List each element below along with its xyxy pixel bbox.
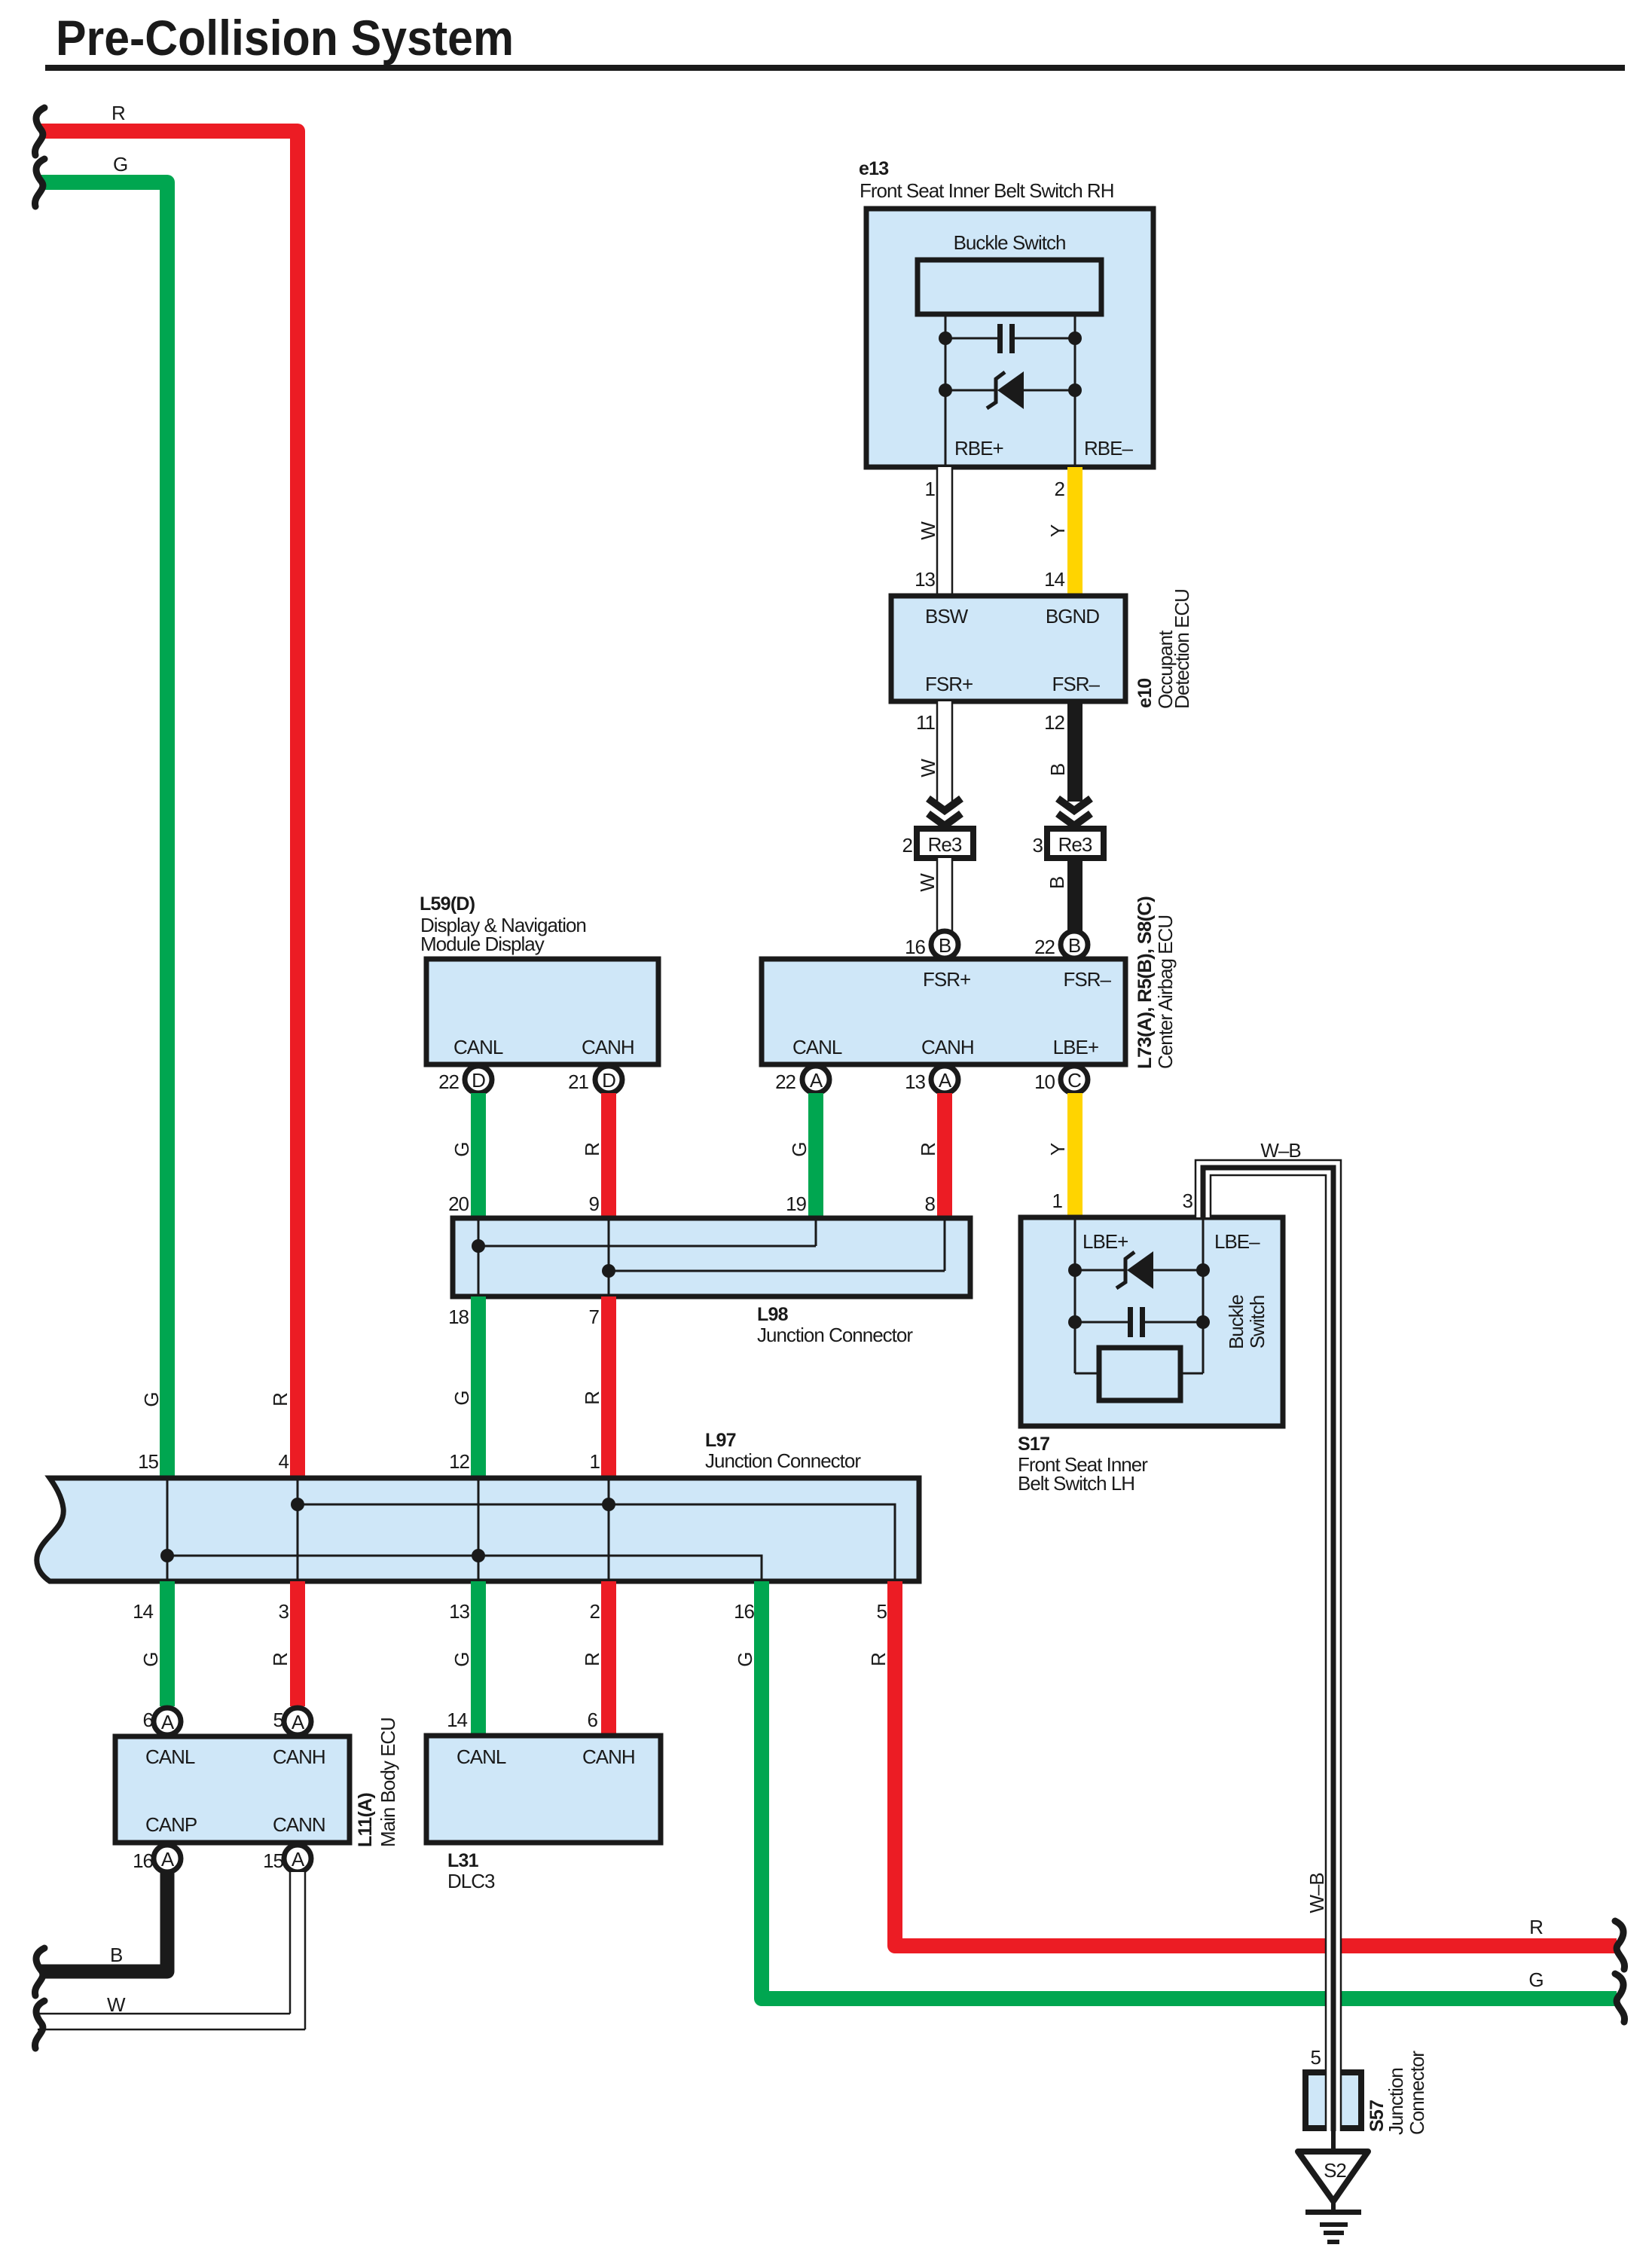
svg-text:Center Airbag ECU: Center Airbag ECU <box>1154 915 1177 1069</box>
svg-text:LBE–: LBE– <box>1214 1230 1260 1253</box>
svg-text:Buckle Switch: Buckle Switch <box>954 231 1066 254</box>
svg-text:9: 9 <box>589 1193 600 1215</box>
S17 buckle switch inner box <box>1099 1348 1180 1400</box>
svg-text:11: 11 <box>916 711 936 734</box>
connector e13 label <box>859 158 1113 202</box>
switch S17 Front Seat Inner Belt Switch LH (box) <box>1021 1217 1283 1426</box>
airbag ECU rotated designation labels <box>1134 896 1177 1069</box>
svg-text:2: 2 <box>1055 478 1065 500</box>
svg-text:G: G <box>788 1142 811 1156</box>
continuation symbol (right, R wire) <box>1615 1921 1625 1969</box>
svg-text:22: 22 <box>1034 936 1055 958</box>
connector e13 Front Seat Inner Belt Switch RH (box) <box>866 209 1153 467</box>
svg-text:L11(A): L11(A) <box>355 1793 376 1847</box>
svg-text:A: A <box>292 1848 305 1871</box>
svg-text:1: 1 <box>590 1450 600 1473</box>
svg-text:FSR+: FSR+ <box>923 968 970 991</box>
svg-text:BSW: BSW <box>925 605 969 628</box>
wire W-B (S17 pin 3 over to S57, white-black) <box>1195 1160 1341 2127</box>
shield arrows (W column) <box>928 799 961 830</box>
svg-text:B: B <box>110 1944 122 1966</box>
svg-text:B: B <box>1046 877 1068 889</box>
S17 label <box>1018 1434 1148 1495</box>
ECU L73(A) R5(B) S8(C) Center Airbag ECU (box) <box>762 959 1125 1064</box>
ECU e10 Occupant Detection ECU (box) <box>891 596 1125 701</box>
svg-text:S17: S17 <box>1018 1434 1049 1455</box>
pin 5(A) connector circle (L11) <box>273 1708 311 1735</box>
pin 15(A) connector circle (L11 bottom) <box>263 1845 311 1872</box>
wire R (L98 pin 7 to L97 pin 1, red col 808) <box>601 1296 616 1478</box>
svg-text:Y: Y <box>1046 1143 1069 1156</box>
e13 capacitor <box>939 324 1082 353</box>
svg-text:3: 3 <box>1033 834 1043 857</box>
svg-text:A: A <box>161 1711 175 1733</box>
svg-text:CANH: CANH <box>921 1036 974 1058</box>
svg-text:G: G <box>139 1652 162 1666</box>
wire R (airbag 13A to L98 pin 8, red) <box>937 1093 952 1220</box>
wire W (e13 pin1 to e10 pin13, white) <box>937 467 952 596</box>
wire (S57 to ground triangle) <box>1331 2128 1336 2152</box>
svg-text:15: 15 <box>138 1450 158 1473</box>
S17 capacitor <box>1068 1307 1210 1337</box>
svg-text:BGND: BGND <box>1046 605 1099 628</box>
svg-text:Junction Connector: Junction Connector <box>757 1324 913 1346</box>
pin 13(A) connector circle <box>905 1066 958 1093</box>
wire B (Re3 to airbag ECU pin 22B, black) <box>1067 858 1083 932</box>
wire R (L97 pin 3 to L11 pin 5A, red) <box>290 1581 305 1706</box>
svg-text:13: 13 <box>915 568 935 591</box>
svg-text:14: 14 <box>1044 568 1064 591</box>
svg-text:Buckle: Buckle <box>1225 1294 1247 1349</box>
shield arrows (B column) <box>1058 799 1091 830</box>
shield relay block Re3 (pin 3) <box>1033 829 1104 858</box>
e10 rotated designation labels <box>1134 589 1193 709</box>
svg-text:D: D <box>602 1069 615 1092</box>
svg-text:Front Seat Inner Belt Switch R: Front Seat Inner Belt Switch RH <box>860 179 1113 202</box>
svg-text:7: 7 <box>589 1306 600 1328</box>
svg-text:C: C <box>1067 1069 1081 1092</box>
ground symbol <box>1305 2201 1361 2244</box>
continuation symbol (left, G wire) <box>35 159 44 206</box>
svg-text:CANN: CANN <box>273 1813 325 1836</box>
svg-text:B: B <box>939 934 951 957</box>
svg-text:Detection ECU: Detection ECU <box>1171 589 1193 709</box>
junction connector L97 (box with torn left edge) <box>37 1478 919 1581</box>
svg-text:Switch: Switch <box>1246 1296 1269 1349</box>
e13 buckle switch inner box <box>918 231 1101 314</box>
svg-text:L73(A), R5(B), S8(C): L73(A), R5(B), S8(C) <box>1134 896 1156 1069</box>
svg-text:DLC3: DLC3 <box>447 1870 495 1892</box>
pin 10(C) connector circle <box>1034 1066 1088 1093</box>
pin 22(D) connector circle <box>438 1066 492 1093</box>
svg-text:CANH: CANH <box>582 1036 634 1058</box>
connector L59(D) label <box>420 893 586 955</box>
svg-text:10: 10 <box>1034 1070 1055 1093</box>
ground point S2 (triangle) <box>1298 2152 1368 2201</box>
svg-text:15: 15 <box>263 1849 283 1872</box>
S17 internal wires <box>1075 1217 1203 1373</box>
svg-text:22: 22 <box>775 1070 795 1093</box>
connector L31 DLC3 (box) <box>426 1736 661 1843</box>
svg-text:5: 5 <box>1311 2046 1321 2069</box>
svg-text:A: A <box>292 1711 305 1733</box>
wire R (L97 pin 5 to right edge, red) <box>895 1581 1617 1946</box>
svg-text:CANL: CANL <box>145 1745 195 1768</box>
svg-text:12: 12 <box>449 1450 469 1473</box>
svg-text:LBE+: LBE+ <box>1083 1230 1128 1253</box>
wire G (L59 22D to L98 pin 20, green) <box>471 1093 486 1220</box>
svg-text:A: A <box>939 1069 952 1092</box>
svg-text:R: R <box>111 102 125 124</box>
svg-text:2: 2 <box>590 1600 600 1623</box>
svg-text:16: 16 <box>734 1600 754 1623</box>
svg-text:13: 13 <box>905 1070 925 1093</box>
junction connector L98 (box) <box>453 1218 970 1296</box>
wire W (Re3 to airbag ECU pin 16B, white) <box>937 858 952 932</box>
module L59 Display &amp; Navigation Module Display (box) <box>426 959 658 1064</box>
shield relay block Re3 (pin 2) <box>902 829 973 858</box>
wire R (L97 pin 2 to L31 pin 6, red) <box>601 1581 616 1736</box>
svg-text:G: G <box>113 153 127 176</box>
svg-text:W–B: W–B <box>1305 1873 1328 1913</box>
L31 terminal labels <box>457 1745 635 1768</box>
svg-text:G: G <box>450 1142 473 1156</box>
S17 terminal labels <box>1083 1230 1260 1253</box>
svg-text:e10: e10 <box>1134 679 1156 708</box>
svg-text:14: 14 <box>447 1709 467 1731</box>
svg-text:L97: L97 <box>705 1430 736 1451</box>
svg-text:1: 1 <box>1052 1190 1063 1212</box>
svg-text:R: R <box>867 1653 890 1666</box>
wire W (L11 pin 15A to left edge, white) <box>38 1872 305 2029</box>
svg-text:W: W <box>917 521 939 540</box>
svg-text:2: 2 <box>902 834 913 857</box>
svg-text:CANP: CANP <box>145 1813 197 1836</box>
svg-text:L59(D): L59(D) <box>420 893 475 915</box>
continuation symbol (left, R wire) <box>35 108 44 155</box>
wire G (L97 pin 16 to right edge, green) <box>762 1581 1617 1999</box>
svg-text:FSR–: FSR– <box>1064 968 1112 991</box>
L97 internal wires <box>160 1478 895 1581</box>
svg-text:G: G <box>140 1392 163 1406</box>
svg-text:G: G <box>450 1652 473 1666</box>
svg-text:6: 6 <box>588 1709 598 1731</box>
svg-text:W: W <box>107 1993 126 2016</box>
svg-text:3: 3 <box>1183 1190 1193 1212</box>
continuation symbol (left, W wire) <box>35 2001 44 2048</box>
svg-text:CANL: CANL <box>792 1036 842 1058</box>
ECU L11(A) Main Body ECU (box) <box>115 1736 350 1843</box>
svg-text:S2: S2 <box>1324 2159 1346 2182</box>
svg-text:Connector: Connector <box>1406 2051 1428 2135</box>
S17 rotated Buckle Switch label <box>1225 1294 1269 1349</box>
svg-text:CANH: CANH <box>582 1745 635 1768</box>
wire G (L97 pin 13 to L31 pin 14, green) <box>471 1581 486 1736</box>
svg-text:B: B <box>1046 764 1069 776</box>
svg-text:18: 18 <box>448 1306 469 1328</box>
svg-text:Y: Y <box>1046 524 1069 537</box>
svg-text:12: 12 <box>1044 711 1064 734</box>
svg-text:13: 13 <box>449 1600 469 1623</box>
svg-text:CANL: CANL <box>457 1745 506 1768</box>
wire W (e10 pin11 down to shield arrow, white) <box>937 701 952 802</box>
svg-text:CANH: CANH <box>273 1745 325 1768</box>
svg-text:D: D <box>472 1069 485 1092</box>
svg-text:Module Display: Module Display <box>420 933 545 955</box>
svg-text:14: 14 <box>133 1600 153 1623</box>
svg-text:FSR–: FSR– <box>1052 673 1101 695</box>
svg-text:5: 5 <box>877 1600 887 1623</box>
pin 16(A) connector circle (L11 bottom) <box>133 1845 181 1872</box>
svg-text:21: 21 <box>568 1070 588 1093</box>
L98 internal wires <box>472 1218 945 1296</box>
svg-text:LBE+: LBE+ <box>1053 1036 1098 1058</box>
wire B (e10 pin12 down to shield arrow, black) <box>1067 701 1083 802</box>
wire G (L97 pin 14 to L11 pin 6A, green) <box>160 1581 175 1706</box>
svg-text:16: 16 <box>905 936 925 958</box>
svg-text:G: G <box>734 1652 756 1666</box>
e13 internal wires <box>945 314 1075 467</box>
svg-text:20: 20 <box>448 1193 469 1215</box>
svg-text:R: R <box>917 1143 939 1156</box>
L11 rotated designation labels <box>355 1718 399 1847</box>
svg-text:19: 19 <box>786 1193 806 1215</box>
L97 label <box>705 1430 861 1472</box>
svg-text:R: R <box>269 1653 292 1666</box>
svg-text:G: G <box>1528 1968 1543 1991</box>
pin 6(A) connector circle (L11) <box>143 1708 181 1735</box>
e10 terminal labels <box>925 605 1101 695</box>
svg-text:Junction: Junction <box>1385 2068 1407 2135</box>
wire G (L98 pin 18 to L97 pin 12... green col 635) <box>471 1296 486 1478</box>
svg-text:G: G <box>450 1391 473 1405</box>
e13 terminal labels <box>954 437 1133 460</box>
wire R (red CAN main bus, from left edge down to L97 pin 4) <box>41 131 298 1478</box>
airbag ECU terminal labels <box>792 968 1112 1058</box>
continuation symbol (left, B wire) <box>35 1948 44 1996</box>
svg-text:R: R <box>581 1653 603 1666</box>
pin 22(B) connector circle <box>1034 931 1088 958</box>
svg-text:e13: e13 <box>859 158 888 179</box>
L59 terminal labels <box>453 1036 634 1058</box>
continuation symbol (right, G wire) <box>1615 1974 1625 2022</box>
wire Y (airbag 10C to S17 pin 1, yellow) <box>1067 1093 1083 1217</box>
L11 terminal labels <box>145 1745 325 1836</box>
svg-text:16: 16 <box>133 1849 153 1872</box>
svg-text:R: R <box>1529 1916 1543 1938</box>
wire B (L11 pin 16A to left edge, black) <box>41 1872 167 1971</box>
svg-text:4: 4 <box>279 1450 289 1473</box>
svg-text:FSR+: FSR+ <box>925 673 973 695</box>
S57 rotated designation labels <box>1366 2051 1428 2135</box>
svg-text:CANL: CANL <box>453 1036 503 1058</box>
svg-text:W: W <box>917 759 939 777</box>
L98 label <box>757 1304 913 1346</box>
svg-text:Re3: Re3 <box>928 833 962 856</box>
svg-text:A: A <box>810 1069 823 1092</box>
wire Y (e13 pin2 to e10 pin14, yellow) <box>1067 467 1083 596</box>
wire G (green CAN main bus, from left edge down to L97 pin 15) <box>41 182 167 1478</box>
svg-text:A: A <box>161 1848 175 1871</box>
svg-text:1: 1 <box>925 478 936 500</box>
svg-text:Junction Connector: Junction Connector <box>705 1449 861 1472</box>
title <box>45 10 1625 71</box>
wire G (airbag 22A to L98 pin 19, green) <box>808 1093 823 1220</box>
svg-text:RBE–: RBE– <box>1084 437 1133 460</box>
svg-text:RBE+: RBE+ <box>954 437 1003 460</box>
e13 zener diode <box>939 371 1082 409</box>
svg-text:L31: L31 <box>447 1850 479 1871</box>
svg-text:3: 3 <box>279 1600 289 1623</box>
L31 label <box>447 1850 495 1892</box>
svg-text:W: W <box>916 873 939 892</box>
svg-text:Pre-Collision System: Pre-Collision System <box>56 10 514 66</box>
pin 22(A) connector circle <box>775 1066 829 1093</box>
S17 zener diode <box>1068 1251 1210 1289</box>
svg-text:Re3: Re3 <box>1058 833 1092 856</box>
svg-text:R: R <box>581 1143 603 1156</box>
svg-text:W–B: W–B <box>1260 1139 1300 1162</box>
svg-text:Main Body ECU: Main Body ECU <box>377 1718 399 1847</box>
svg-text:R: R <box>269 1393 292 1406</box>
svg-text:B: B <box>1068 934 1080 957</box>
svg-text:R: R <box>581 1391 603 1405</box>
pin 21(D) connector circle <box>568 1066 622 1093</box>
svg-text:22: 22 <box>438 1070 459 1093</box>
svg-text:8: 8 <box>925 1193 936 1215</box>
pin 16(B) connector circle <box>905 931 958 958</box>
svg-text:L98: L98 <box>757 1304 789 1325</box>
junction connector S57 (box) <box>1305 2069 1361 2131</box>
wire R (L59 21D to L98 pin 9, red) <box>601 1093 616 1220</box>
svg-text:Belt Switch LH: Belt Switch LH <box>1018 1472 1134 1495</box>
